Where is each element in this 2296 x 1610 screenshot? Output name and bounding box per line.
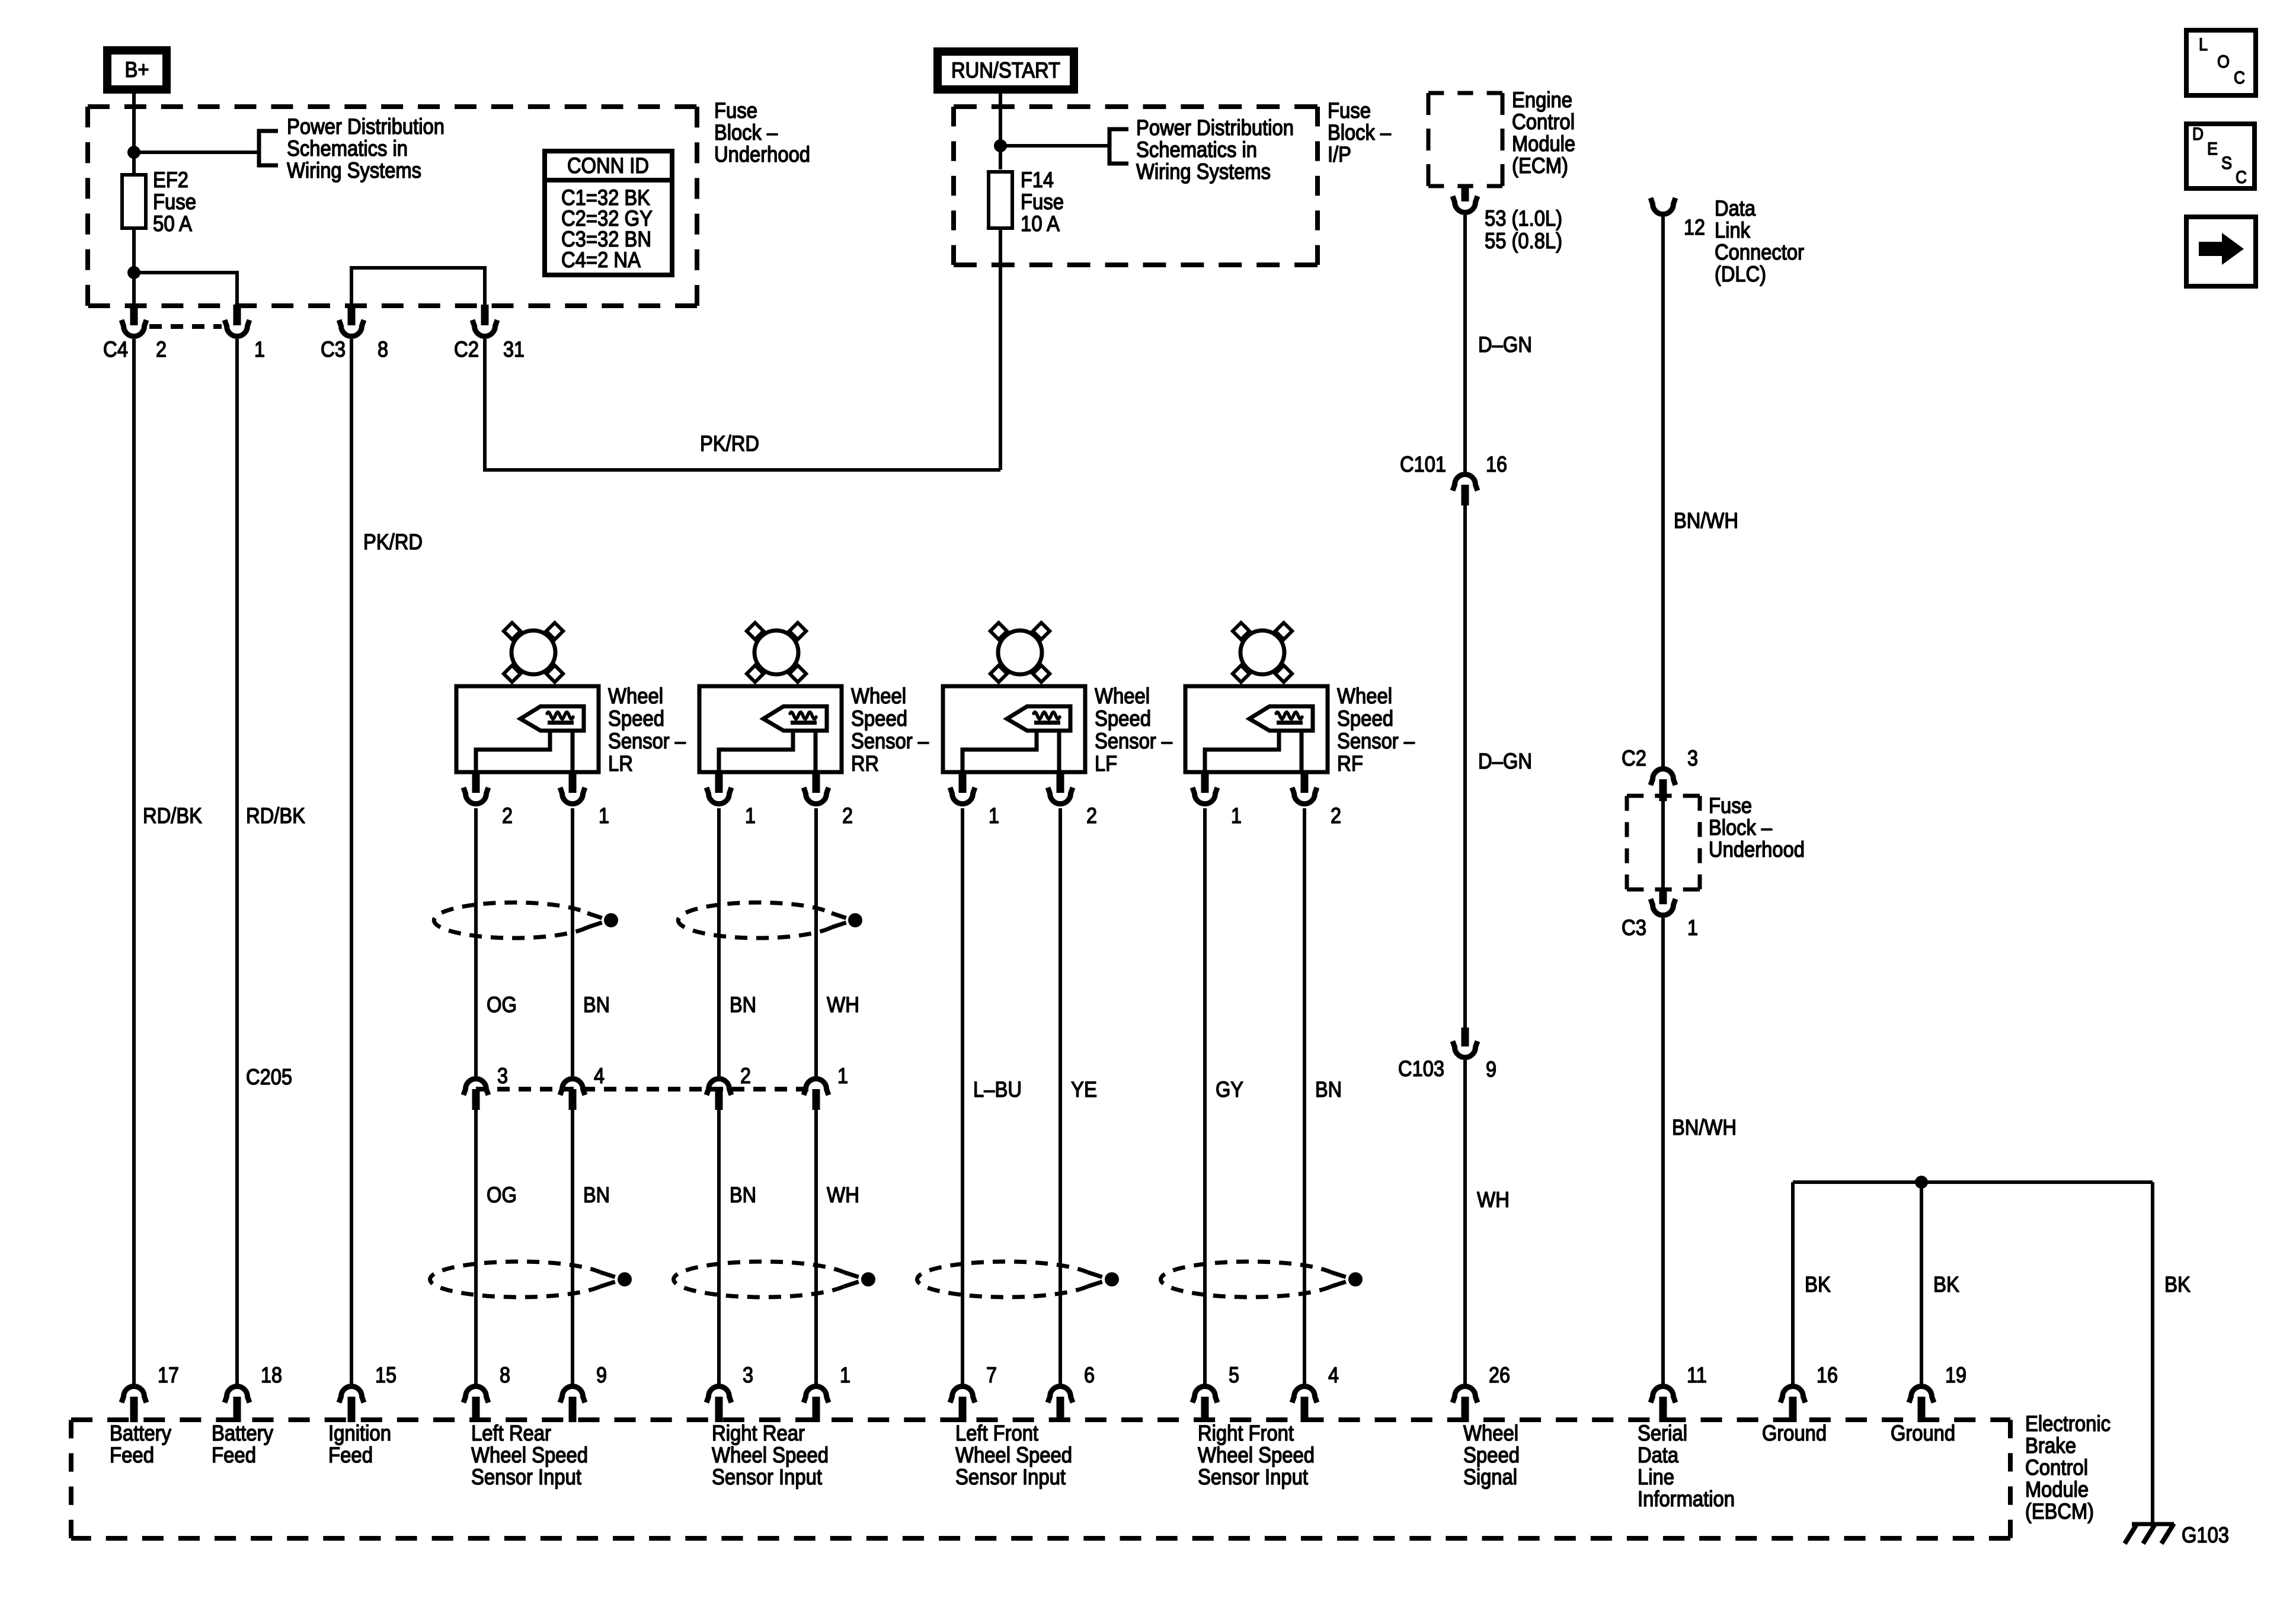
pin ECM stub [1462, 185, 1469, 201]
dashed link C205 [476, 1087, 816, 1092]
wire RD/BK battery feed 1 [132, 339, 136, 1385]
CONN ID table [545, 151, 672, 275]
connector C205-4 arch [560, 1079, 585, 1096]
svg-text:(ECM): (ECM) [1512, 153, 1568, 178]
svg-text:Wheel: Wheel [608, 684, 663, 708]
svg-text:Wheel Speed: Wheel Speed [712, 1443, 829, 1467]
connector C4-1 cup [225, 320, 250, 337]
wire BK to G103 [2151, 1182, 2154, 1524]
pin EBCM 4 stub [1301, 1397, 1309, 1422]
electronic brake control module (EBCM) box [71, 1417, 2010, 1422]
pin C4-1 stub [234, 305, 241, 325]
connector DLC cup [1651, 198, 1675, 215]
wire BK to pin 16 [1791, 1182, 1795, 1385]
connector EBCM pin 18 arch [225, 1387, 250, 1403]
connector EBCM pin 4 arch [1292, 1387, 1317, 1403]
junction ground bus [1915, 1176, 1928, 1189]
pin EBCM 9 stub [569, 1397, 577, 1422]
svg-text:Wiring Systems: Wiring Systems [287, 158, 421, 183]
wire PK/RD ignition feed [350, 339, 353, 1385]
svg-text:Fuse: Fuse [1021, 190, 1064, 214]
pin C205-3 stub [472, 1089, 480, 1110]
svg-text:BK: BK [2164, 1272, 2191, 1297]
wheel speed sensor LR [504, 623, 520, 639]
fuse block - I/P box [954, 104, 1318, 109]
svg-text:Sensor –: Sensor – [851, 729, 929, 753]
wire to power distribution note (left) [134, 151, 259, 154]
twisted pair RR lower [674, 1262, 844, 1297]
wheel speed sensor LF [990, 623, 1007, 639]
svg-text:1: 1 [1687, 916, 1698, 940]
svg-text:BK: BK [1933, 1272, 1959, 1297]
svg-text:C4: C4 [103, 337, 128, 361]
connector EBCM pin 19 arch [1909, 1387, 1934, 1403]
svg-text:PK/RD: PK/RD [363, 530, 423, 554]
svg-text:C205: C205 [246, 1065, 292, 1089]
svg-text:5: 5 [1229, 1363, 1239, 1387]
pin C205-2 stub [715, 1089, 723, 1110]
svg-text:53 (1.0L): 53 (1.0L) [1485, 206, 1562, 231]
wire C205-1 to EBCM [814, 1110, 818, 1385]
twisted pair LR upper [434, 902, 587, 938]
svg-text:C2: C2 [1622, 746, 1646, 770]
svg-text:Data: Data [1715, 196, 1755, 220]
wire sensor to C205 x=803 [474, 808, 478, 1076]
engine control module (ECM) box [1428, 91, 1502, 95]
wire sensor to C205 x=966 [571, 808, 574, 1076]
svg-text:4: 4 [594, 1064, 605, 1088]
svg-text:Fuse: Fuse [1709, 793, 1752, 818]
svg-text:Data: Data [1638, 1443, 1678, 1467]
legend box arrow [2186, 217, 2256, 286]
svg-text:Line: Line [1638, 1465, 1674, 1489]
svg-text:8: 8 [500, 1363, 510, 1387]
svg-text:S: S [2221, 153, 2232, 173]
connector EBCM pin 26 arch [1453, 1387, 1478, 1403]
connector EBCM pin 15 arch [339, 1387, 364, 1403]
wire RD/BK battery feed 2 [235, 339, 239, 1385]
svg-text:Fuse: Fuse [714, 98, 757, 123]
svg-text:Wheel: Wheel [851, 684, 906, 708]
svg-text:O: O [2217, 52, 2230, 72]
svg-text:RF: RF [1337, 751, 1363, 776]
wire C205-2 to EBCM [717, 1110, 721, 1385]
svg-text:B+: B+ [125, 57, 149, 82]
svg-text:E: E [2207, 139, 2218, 159]
fuse block - underhood box [88, 104, 697, 109]
wire RUN/START to F14 [999, 94, 1002, 169]
pin EBCM 18 stub [234, 1397, 241, 1422]
wire F14 down to PK/RD run [999, 228, 1002, 470]
svg-text:Serial: Serial [1638, 1421, 1687, 1445]
pin EBCM 3 stub [715, 1397, 723, 1422]
connector EBCM pin 16 arch [1780, 1387, 1805, 1403]
svg-text:17: 17 [158, 1363, 179, 1387]
connector C103 cup [1453, 1041, 1478, 1058]
connector EBCM pin 7 arch [950, 1387, 975, 1403]
legend box DESC [2186, 124, 2255, 188]
wheel speed sensor RR [747, 623, 763, 639]
svg-text:RD/BK: RD/BK [246, 804, 305, 828]
pin EBCM 17 stub [130, 1397, 138, 1422]
svg-text:G103: G103 [2182, 1523, 2229, 1547]
svg-text:L: L [2199, 35, 2208, 55]
svg-text:PK/RD: PK/RD [700, 431, 759, 456]
connector C205-3 arch [463, 1079, 488, 1096]
svg-text:Speed: Speed [1463, 1443, 1520, 1467]
connector C101 arch [1453, 475, 1478, 491]
wire J2 to C4-1 [134, 273, 237, 306]
pin C205-1 stub [813, 1089, 820, 1110]
svg-text:Wheel: Wheel [1095, 684, 1150, 708]
svg-text:Sensor –: Sensor – [608, 729, 686, 753]
pin EBCM 19 stub [1918, 1397, 1926, 1422]
svg-text:3: 3 [1687, 746, 1698, 770]
svg-text:50 A: 50 A [153, 212, 192, 236]
wire C101 to C103 [1463, 505, 1467, 1028]
pin C3-8 stub [348, 305, 356, 325]
svg-text:WH: WH [827, 993, 859, 1017]
wire sensor to EBCM x=1789 [1059, 808, 1062, 1385]
pin C205-4 stub [569, 1089, 577, 1110]
svg-text:Schematics in: Schematics in [287, 136, 408, 161]
connector EBCM pin 11 arch [1651, 1387, 1675, 1403]
connector ECM cup [1453, 196, 1478, 213]
svg-text:1: 1 [599, 804, 609, 828]
connector EBCM pin 5 arch [1192, 1387, 1217, 1403]
pin EBCM 5 stub [1201, 1397, 1209, 1422]
twisted pair RF [1161, 1262, 1331, 1297]
svg-text:Ignition: Ignition [328, 1421, 391, 1445]
connector C4-2 cup [121, 320, 146, 337]
svg-text:Ground: Ground [1891, 1421, 1955, 1445]
svg-text:Fuse: Fuse [153, 190, 196, 214]
wire C205-3 to EBCM [474, 1110, 478, 1385]
pin EBCM 7 stub [959, 1397, 967, 1422]
svg-text:18: 18 [261, 1363, 282, 1387]
pin C101 stub [1462, 485, 1469, 505]
svg-text:2: 2 [740, 1064, 751, 1088]
svg-text:Underhood: Underhood [714, 142, 810, 167]
wire sensor to EBCM x=2033 [1203, 808, 1207, 1385]
svg-text:Speed: Speed [608, 706, 664, 731]
svg-text:OG: OG [487, 993, 517, 1017]
junction J2 [127, 266, 140, 279]
wire ECM to C101 [1463, 215, 1467, 472]
svg-text:12: 12 [1684, 215, 1705, 239]
svg-text:2: 2 [1331, 804, 1341, 828]
svg-text:Wheel: Wheel [1463, 1421, 1518, 1445]
connector EBCM pin 17 arch [121, 1387, 146, 1403]
svg-text:BK: BK [1805, 1272, 1831, 1297]
svg-text:Left Front: Left Front [955, 1421, 1039, 1445]
svg-text:Battery: Battery [110, 1421, 171, 1445]
svg-text:Wheel Speed: Wheel Speed [955, 1443, 1072, 1467]
svg-text:WH: WH [827, 1183, 859, 1207]
svg-text:Control: Control [1512, 110, 1575, 134]
svg-text:Left Rear: Left Rear [471, 1421, 551, 1445]
pin EBCM 6 stub [1057, 1397, 1064, 1422]
power symbol RUN/START [938, 52, 1074, 89]
svg-text:3: 3 [497, 1064, 508, 1088]
svg-text:1: 1 [1231, 804, 1242, 828]
wire sensor to EBCM x=2201 [1303, 808, 1306, 1385]
pin EBCM 16 stub [1789, 1397, 1797, 1422]
pin EBCM 26 stub [1462, 1397, 1469, 1422]
svg-text:1: 1 [254, 337, 265, 361]
svg-text:9: 9 [1486, 1057, 1496, 1081]
pin C3 stub small [1659, 889, 1667, 904]
svg-text:EF2: EF2 [153, 168, 188, 192]
svg-text:RUN/START: RUN/START [951, 58, 1060, 82]
svg-text:I/P: I/P [1328, 142, 1351, 167]
wire DLC to C2 [1661, 217, 1665, 767]
svg-text:C2: C2 [454, 337, 479, 361]
pin C2-31 stub [481, 305, 489, 325]
svg-text:Brake: Brake [2025, 1433, 2076, 1458]
twisted pair RR upper [678, 902, 832, 938]
wire C103 to EBCM [1463, 1060, 1467, 1385]
svg-text:Sensor –: Sensor – [1337, 729, 1415, 753]
svg-text:Connector: Connector [1715, 240, 1804, 264]
svg-text:31: 31 [503, 337, 525, 361]
connector EBCM pin 8 arch [463, 1387, 488, 1403]
svg-text:L–BU: L–BU [973, 1077, 1022, 1102]
svg-text:Right Front: Right Front [1198, 1421, 1294, 1445]
svg-text:2: 2 [156, 337, 167, 361]
svg-text:Sensor Input: Sensor Input [955, 1465, 1066, 1489]
svg-text:3: 3 [743, 1363, 753, 1387]
wire C3 to EBCM [1661, 918, 1665, 1385]
connector C2-31 cup [472, 320, 497, 337]
svg-text:LR: LR [608, 751, 633, 776]
svg-text:55 (0.8L): 55 (0.8L) [1485, 229, 1562, 253]
svg-text:6: 6 [1084, 1363, 1095, 1387]
svg-text:C3: C3 [321, 337, 346, 361]
twisted pair LF [917, 1262, 1088, 1297]
svg-text:10 A: 10 A [1021, 212, 1060, 236]
svg-text:GY: GY [1216, 1077, 1243, 1102]
svg-text:1: 1 [837, 1064, 848, 1088]
wire sensor to C205 x=1377 [814, 808, 818, 1076]
connector C205-1 arch [804, 1079, 829, 1096]
svg-text:Right Rear: Right Rear [712, 1421, 805, 1445]
svg-text:WH: WH [1477, 1188, 1510, 1212]
svg-text:(EBCM): (EBCM) [2025, 1499, 2094, 1523]
twisted pair LR lower [430, 1262, 600, 1297]
wire ground bus [1793, 1180, 2153, 1184]
svg-text:C: C [2234, 68, 2245, 88]
svg-text:Speed: Speed [1337, 706, 1393, 731]
svg-text:4: 4 [1328, 1363, 1339, 1387]
wire PK/RD C2-31 to F14 [485, 339, 1000, 470]
connector EBCM pin 6 arch [1048, 1387, 1073, 1403]
pin EBCM 15 stub [348, 1397, 356, 1422]
svg-text:Sensor Input: Sensor Input [471, 1465, 582, 1489]
connector C2 arch [1651, 769, 1675, 786]
svg-text:Link: Link [1715, 218, 1750, 242]
svg-text:C4=2 NA: C4=2 NA [561, 248, 641, 272]
svg-text:19: 19 [1945, 1363, 1966, 1387]
svg-text:Module: Module [1512, 132, 1575, 156]
svg-text:C3: C3 [1622, 916, 1646, 940]
connector EBCM pin 1 arch [804, 1387, 829, 1403]
svg-text:BN: BN [1315, 1077, 1342, 1102]
svg-text:Schematics in: Schematics in [1136, 137, 1257, 162]
connector EBCM pin 9 arch [560, 1387, 585, 1403]
svg-text:OG: OG [487, 1183, 517, 1207]
svg-text:Electronic: Electronic [2025, 1411, 2110, 1436]
svg-text:Engine: Engine [1512, 88, 1572, 112]
svg-text:Feed: Feed [110, 1443, 154, 1467]
wire through small fuse block [1661, 801, 1665, 889]
svg-text:Feed: Feed [212, 1443, 256, 1467]
svg-text:YE: YE [1071, 1077, 1097, 1102]
svg-text:C101: C101 [1400, 452, 1446, 476]
connector C3-8 cup [339, 320, 364, 337]
pin C4-2 stub [130, 305, 138, 325]
svg-text:Wheel Speed: Wheel Speed [1198, 1443, 1315, 1467]
pin EBCM 8 stub [472, 1397, 480, 1422]
svg-text:BN: BN [583, 993, 610, 1017]
svg-text:Speed: Speed [851, 706, 907, 731]
svg-text:D–GN: D–GN [1478, 749, 1532, 773]
svg-text:Block –: Block – [714, 120, 778, 145]
wire to power distribution note (right) [1000, 144, 1109, 148]
pin EBCM 11 stub [1659, 1397, 1667, 1422]
svg-text:Block –: Block – [1709, 815, 1772, 840]
bracket note symbol (left) [259, 131, 278, 165]
svg-text:16: 16 [1817, 1363, 1838, 1387]
junction J1 [127, 146, 140, 159]
wire EF2 to C4-2 [132, 228, 136, 306]
svg-text:BN: BN [583, 1183, 610, 1207]
svg-text:8: 8 [378, 337, 388, 361]
svg-text:RR: RR [851, 751, 879, 776]
svg-text:C103: C103 [1398, 1057, 1444, 1081]
svg-text:BN: BN [730, 993, 756, 1017]
svg-text:BN/WH: BN/WH [1674, 508, 1738, 533]
svg-text:Module: Module [2025, 1477, 2089, 1502]
svg-text:F14: F14 [1021, 168, 1054, 192]
svg-text:CONN ID: CONN ID [567, 153, 649, 178]
bracket note symbol (right) [1109, 129, 1128, 164]
wire sensor to EBCM x=1624 [961, 808, 964, 1385]
svg-text:Sensor –: Sensor – [1095, 729, 1172, 753]
wire C205-4 to EBCM [571, 1110, 574, 1385]
svg-text:11: 11 [1687, 1363, 1707, 1387]
dashed link C4 [149, 324, 222, 329]
svg-text:9: 9 [596, 1363, 607, 1387]
svg-text:Information: Information [1638, 1487, 1735, 1511]
svg-text:Block –: Block – [1328, 120, 1391, 145]
svg-text:C: C [2236, 168, 2247, 187]
svg-text:Control: Control [2025, 1455, 2088, 1480]
fuse F14 10 A [989, 172, 1012, 228]
svg-text:1: 1 [745, 804, 756, 828]
svg-text:BN: BN [730, 1183, 756, 1207]
ground G103 [2132, 1522, 2174, 1526]
svg-text:2: 2 [842, 804, 853, 828]
svg-text:1: 1 [840, 1363, 850, 1387]
svg-text:Sensor Input: Sensor Input [1198, 1465, 1309, 1489]
svg-text:Signal: Signal [1463, 1465, 1517, 1489]
svg-text:(DLC): (DLC) [1715, 262, 1766, 286]
svg-text:Wheel Speed: Wheel Speed [471, 1443, 588, 1467]
svg-text:RD/BK: RD/BK [143, 804, 202, 828]
svg-text:2: 2 [502, 804, 513, 828]
fuse block - underhood small box [1627, 794, 1700, 798]
wire bridge C3-8 to C2-31 [351, 268, 485, 306]
svg-text:Sensor Input: Sensor Input [712, 1465, 823, 1489]
junction J3 [994, 139, 1007, 152]
connector EBCM pin 3 arch [706, 1387, 731, 1403]
wire BK to pin 19 [1920, 1182, 1923, 1385]
svg-text:D–GN: D–GN [1478, 332, 1532, 357]
svg-text:Ground: Ground [1762, 1421, 1827, 1445]
pin EBCM 1 stub [813, 1397, 820, 1422]
svg-text:LF: LF [1095, 751, 1117, 776]
svg-text:Feed: Feed [328, 1443, 373, 1467]
svg-text:Wiring Systems: Wiring Systems [1136, 159, 1271, 184]
pin C2 stub [1659, 779, 1667, 801]
svg-text:Wheel: Wheel [1337, 684, 1392, 708]
power symbol B+ [107, 50, 167, 89]
svg-text:1: 1 [989, 804, 999, 828]
svg-text:D: D [2192, 124, 2204, 144]
svg-text:Speed: Speed [1095, 706, 1151, 731]
svg-text:2: 2 [1086, 804, 1097, 828]
legend box LOC [2186, 30, 2256, 95]
connector C3 cup small [1651, 899, 1675, 916]
svg-text:7: 7 [986, 1363, 997, 1387]
connector C205-2 arch [706, 1079, 731, 1096]
pin C103 stub [1462, 1028, 1469, 1046]
wire B+ to EF2 fuse [132, 94, 136, 177]
svg-text:Battery: Battery [212, 1421, 273, 1445]
wire sensor to C205 x=1213 [717, 808, 721, 1076]
svg-text:BN/WH: BN/WH [1672, 1115, 1737, 1140]
svg-text:Fuse: Fuse [1328, 98, 1371, 123]
svg-text:Power Distribution: Power Distribution [1136, 116, 1294, 140]
svg-text:Power Distribution: Power Distribution [287, 114, 445, 139]
svg-text:16: 16 [1486, 452, 1507, 476]
wheel speed sensor RF [1233, 623, 1249, 639]
svg-text:15: 15 [375, 1363, 396, 1387]
svg-text:26: 26 [1489, 1363, 1510, 1387]
svg-text:Underhood: Underhood [1709, 837, 1805, 862]
fuse EF2 50 A [122, 175, 146, 228]
